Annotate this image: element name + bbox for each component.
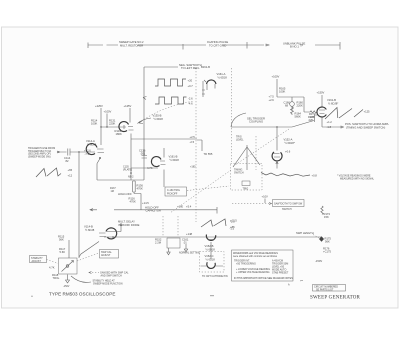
capacitor C160 circle symbol — [290, 102, 295, 107]
waveform: square wave lower — [155, 97, 187, 104]
svg-text:SWEEP MODE FUNCTION: SWEEP MODE FUNCTION — [93, 283, 123, 286]
svg-text:220K: 220K — [109, 122, 115, 126]
svg-text:470K: 470K — [130, 200, 136, 204]
svg-text:½ 6DJ8: ½ 6DJ8 — [154, 117, 164, 121]
svg-text:(TIMING AND SWEEP SWITCH): (TIMING AND SWEEP SWITCH) — [346, 125, 385, 129]
svg-text:68: 68 — [285, 104, 288, 108]
node dot on V135B cathode column — [130, 172, 132, 174]
leader to stability note — [71, 276, 91, 282]
svg-text:+125: +125 — [364, 110, 371, 114]
wire: stability bus vertical x79 — [78, 152, 80, 258]
boxed net label: sawtooth to sweep — [273, 200, 305, 207]
svg-text:STAB PRESET: STAB PRESET — [272, 272, 289, 275]
tube V161B (right output) — [317, 107, 326, 117]
dashed strut x163 — [162, 216, 164, 236]
svg-text:+10V: +10V — [262, 195, 269, 199]
svg-text:SWEEP GENERATOR: SWEEP GENERATOR — [310, 296, 361, 301]
wire: +100V drop to R165 — [276, 79, 278, 97]
wire: H8 line y180 — [97, 179, 144, 181]
node on mid rail — [276, 126, 278, 128]
svg-text:+150V: +150V — [317, 91, 325, 95]
tube V152A — [272, 152, 282, 161]
svg-text:470K: 470K — [137, 187, 143, 191]
svg-text:PICKOFF DIODE: PICKOFF DIODE — [119, 223, 140, 227]
capacitor box on bus — [167, 238, 180, 248]
tube V161B left — [151, 157, 161, 167]
svg-text:+12: +12 — [68, 174, 73, 178]
svg-text:B NO.1: B NO.1 — [290, 45, 299, 49]
svg-text:½ 6DJ8: ½ 6DJ8 — [85, 228, 95, 232]
wire: V114B cathode to stability pot — [79, 242, 99, 258]
svg-text:NORMAL SETTING: NORMAL SETTING — [179, 252, 200, 255]
diagonal struts — [233, 147, 260, 167]
resistor R173 15K on right column — [321, 206, 323, 214]
svg-text:+: + — [31, 295, 33, 299]
dashed leader ganged — [89, 272, 99, 274]
dashed run to sawtooth box — [232, 203, 270, 205]
svg-text:TYPE RM503 OSCILLOSCOPE: TYPE RM503 OSCILLOSCOPE — [49, 292, 116, 297]
svg-text:SWITCH: SWITCH — [282, 208, 292, 211]
svg-text:SWP LENGTH: SWP LENGTH — [296, 231, 314, 235]
svg-text:MEASURED WITH NO SIGNAL: MEASURED WITH NO SIGNAL — [340, 178, 375, 181]
svg-text:NE-2: NE-2 — [128, 176, 134, 179]
svg-text:PICKOFF: PICKOFF — [167, 193, 178, 196]
svg-text:½ 6DJ8*: ½ 6DJ8* — [328, 101, 338, 105]
svg-text:HOLD-OFF: HOLD-OFF — [118, 192, 132, 196]
svg-text:2.2M: 2.2M — [155, 241, 162, 245]
svg-text:100K: 100K — [279, 90, 285, 94]
cathode resistor R167 — [315, 115, 318, 122]
wire: grid feed to V135B — [101, 125, 126, 129]
svg-text:+148: +148 — [186, 232, 193, 236]
resistor in timing box — [242, 181, 250, 186]
svg-text:V152-C: V152-C — [205, 254, 214, 258]
dashed leader pickoff to timing switch — [187, 186, 229, 191]
arc leader ext trigger — [231, 113, 246, 127]
svg-text:SWITCH: SWITCH — [234, 172, 244, 175]
swp cal box — [100, 250, 119, 259]
svg-text:V114-A: V114-A — [86, 139, 95, 143]
wire: R115 chain vertical x69 — [68, 240, 70, 258]
svg-text:POS. SAWTOOTH TO HORIZ AMPL: POS. SAWTOOTH TO HORIZ AMPL — [345, 122, 389, 126]
svg-text:COUPLING: COUPLING — [249, 120, 263, 124]
notes box — [232, 250, 294, 281]
svg-text:+50 TRIGGERING: +50 TRIGGERING — [236, 263, 256, 266]
svg-text:½ 6DJ8: ½ 6DJ8 — [218, 76, 228, 80]
wire: V152C connections — [201, 242, 224, 266]
svg-text:56K: 56K — [325, 240, 330, 244]
svg-text:+0.8: +0.8 — [312, 174, 318, 178]
svg-text:(PLATE): (PLATE) — [123, 168, 132, 171]
svg-text:TD 555: TD 555 — [204, 152, 213, 156]
ground below pot — [66, 275, 70, 284]
waveform: square wave upper — [155, 79, 186, 86]
dashed diagonal link D — [170, 170, 231, 213]
wire: +225V drop to V114A plate — [100, 108, 102, 145]
svg-text:+••: +•• — [300, 280, 303, 283]
svg-text:LEVEL: LEVEL — [236, 139, 244, 142]
svg-text:TRIG.: TRIG. — [53, 276, 60, 280]
svg-text:+1.2: +1.2 — [327, 120, 333, 124]
svg-text:+160: +160 — [177, 205, 184, 209]
svg-text:-150V: -150V — [315, 259, 322, 263]
svg-text:TO CRT CATHODE PIN: TO CRT CATHODE PIN — [202, 275, 228, 278]
svg-text:½ 6DJ8: ½ 6DJ8 — [206, 247, 216, 251]
svg-text:-2.6: -2.6 — [188, 97, 193, 101]
svg-text:560K: 560K — [295, 115, 301, 119]
node: diamond junction — [319, 236, 324, 241]
svg-text:180K: 180K — [116, 132, 122, 136]
waveform: sawtooth above V152B — [201, 219, 226, 227]
svg-text:82: 82 — [66, 159, 69, 163]
svg-text:220K: 220K — [297, 104, 303, 108]
wire: output line with arrow — [322, 126, 344, 128]
svg-text:+2.6: +2.6 — [269, 98, 275, 102]
wire: top rail segment 2 — [138, 44, 206, 46]
arrowhead on pointer curve — [143, 97, 147, 100]
svg-text:V161-A: V161-A — [217, 72, 226, 76]
svg-text:AND SWP SWITCH: AND SWP SWITCH — [101, 275, 122, 278]
svg-text:+5.4: +5.4 — [186, 205, 192, 209]
wire: vertical V135B to V161B — [131, 139, 158, 180]
svg-text:+0.7: +0.7 — [188, 84, 194, 88]
trigger pickoff box — [165, 187, 187, 196]
wire: trigger input line with arrow — [57, 151, 67, 153]
svg-text:SE PARTS LIST: SE PARTS LIST — [316, 289, 334, 292]
svg-text:½ 6DJ8: ½ 6DJ8 — [87, 142, 97, 146]
wire: corner R136 to R116 — [134, 192, 141, 210]
wire: main bottom bus y237 — [104, 236, 321, 238]
wire: H9 line y210 with left open arrow — [90, 209, 97, 212]
svg-text:-7.5: -7.5 — [85, 152, 90, 156]
svg-text:+14.5: +14.5 — [142, 201, 149, 205]
wire: top unblanking rail segment 1 — [88, 44, 118, 46]
wire: switch strut vertical — [246, 145, 248, 170]
svg-text:4.7K: 4.7K — [147, 166, 153, 170]
tube V114A — [86, 144, 97, 155]
svg-text:+180: +180 — [190, 166, 196, 169]
waveform: output sawtooth — [325, 108, 363, 120]
svg-text:56K: 56K — [59, 238, 64, 242]
svg-text:B161-B: B161-B — [201, 65, 210, 69]
svg-text:4.7K: 4.7K — [49, 266, 55, 270]
ground arrow C161 — [184, 244, 187, 252]
svg-text:were obtained with controls se: were obtained with controls set as follo… — [233, 255, 278, 258]
wire: mid rail y127 — [231, 121, 314, 128]
svg-text:-1.5: -1.5 — [230, 227, 235, 231]
dashed diagonal link B — [232, 129, 289, 167]
svg-text:½ 6DJ8*: ½ 6DJ8* — [285, 141, 295, 145]
wire: V152A plate drop — [276, 128, 278, 151]
dashed leader pot to swp cal box — [77, 253, 99, 261]
svg-text:.01: .01 — [183, 241, 187, 245]
dashed mechanical link x196 — [195, 68, 197, 222]
svg-text:+20: +20 — [188, 79, 193, 83]
svg-text:+125V: +125V — [124, 104, 132, 108]
node: junction tick at x183 — [182, 44, 184, 50]
wire: V114A cathode down — [97, 159, 100, 181]
svg-text:+2.5: +2.5 — [190, 135, 196, 139]
waveform: left sawtooth — [36, 168, 61, 177]
dashed enclosure CRT cathode follower — [200, 252, 225, 273]
ground under box — [167, 248, 170, 255]
resistor R136 body — [133, 181, 136, 192]
node dots on grid feed — [100, 126, 101, 127]
dashed mechanical link x232 — [231, 68, 233, 162]
stability adjust box — [30, 256, 47, 263]
svg-text:V135-B: V135-B — [153, 114, 162, 118]
node: junction input/stability bus — [78, 151, 79, 152]
svg-text:½ 6DJ8: ½ 6DJ8 — [170, 158, 180, 162]
svg-text:ADJUST: ADJUST — [101, 254, 111, 257]
svg-text:+12.5: +12.5 — [230, 219, 237, 223]
svg-text:IN THIS IMPORTANT NOTICE SEE: IN THIS IMPORTANT NOTICE SEE DIAGRAM NOT… — [234, 277, 293, 280]
wire: +150V drop to V161B plate — [321, 95, 323, 107]
potentiometer R118 stability box — [59, 258, 78, 274]
svg-text:V161-B: V161-B — [169, 155, 178, 159]
svg-text:TO LEFT DEFL: TO LEFT DEFL — [181, 66, 200, 70]
wire: top rail segment 4 with end tick — [315, 42, 340, 50]
node: bus junction right of V114B — [112, 236, 114, 238]
svg-text:15K: 15K — [324, 215, 329, 219]
dashed waveform pointer curve — [139, 101, 194, 123]
node: sweep gate rail start tick — [87, 43, 89, 49]
wire: top rail segment 3 — [223, 44, 264, 46]
svg-text:+C175: +C175 — [323, 250, 331, 254]
svg-text:.001: .001 — [140, 151, 146, 155]
svg-text:+100V: +100V — [272, 75, 280, 79]
resistor R164 560K — [291, 107, 294, 115]
svg-text:V152-A: V152-A — [284, 138, 293, 142]
svg-text:-2.5: -2.5 — [190, 140, 195, 144]
dashed leader stability to pot — [47, 260, 59, 264]
svg-text:TRIG: TRIG — [243, 188, 249, 191]
node: junction tick at x247 — [246, 42, 248, 49]
svg-text:CAPACITOR: CAPACITOR — [146, 209, 161, 213]
resistor R172 47K — [310, 111, 317, 113]
svg-text:SAWTOOTH TO SWP SW: SAWTOOTH TO SWP SW — [274, 202, 303, 205]
wire: grid hook with cap — [107, 226, 121, 232]
svg-text:1M: 1M — [111, 190, 114, 193]
svg-text:-150V: -150V — [63, 285, 70, 288]
svg-text:+ UPPER VOLTAGE READING: + UPPER VOLTAGE READING — [236, 271, 270, 274]
title block box — [313, 285, 346, 292]
svg-text:V114-B: V114-B — [84, 225, 93, 229]
tube V152C — [207, 262, 215, 268]
dashed strut x178 — [177, 216, 179, 236]
capacitor C114 — [68, 149, 95, 156]
dashed timing switch box — [231, 164, 263, 191]
wire: V152A cathode arrow — [276, 162, 278, 169]
wire: plate network horizontal — [277, 97, 310, 112]
capacitor C136 — [142, 150, 148, 180]
wire: V135B cathode line H y139 — [131, 138, 197, 140]
svg-text:V152-B: V152-B — [205, 244, 214, 248]
svg-text:+65: +65 — [68, 168, 73, 172]
wire: drop from +100V — [106, 114, 108, 128]
svg-text:½ 6DJ8: ½ 6DJ8 — [206, 257, 216, 261]
arrow on top rail — [266, 44, 269, 46]
svg-text:+100V: +100V — [104, 110, 112, 114]
tube V114B — [106, 228, 117, 239]
svg-text:100K: 100K — [91, 122, 97, 126]
svg-text:5.6K: 5.6K — [60, 250, 66, 254]
svg-text:+225V: +225V — [95, 104, 103, 108]
svg-text:+0.6: +0.6 — [285, 150, 291, 154]
waveform: trigger ripple — [261, 173, 310, 177]
dashed switch strut — [255, 136, 257, 170]
wire: vertical from H2 down left column — [143, 67, 145, 158]
wire: +125V drop to V135B — [129, 108, 131, 123]
tick mark bottom middle — [210, 295, 214, 297]
svg-text:ADJUST: ADJUST — [32, 260, 42, 263]
tube V161A dome — [207, 80, 217, 84]
wire: corner down to TD — [197, 140, 202, 151]
wire: neg sawtooth feed line H2 — [144, 66, 178, 68]
tube V135B — [119, 122, 129, 132]
tube V152B on bus — [206, 235, 215, 241]
svg-text:TP: TP — [300, 45, 303, 48]
svg-text:(SWEEP MODE SW): (SWEEP MODE SW) — [28, 155, 51, 158]
svg-text:V161-B: V161-B — [327, 98, 336, 102]
